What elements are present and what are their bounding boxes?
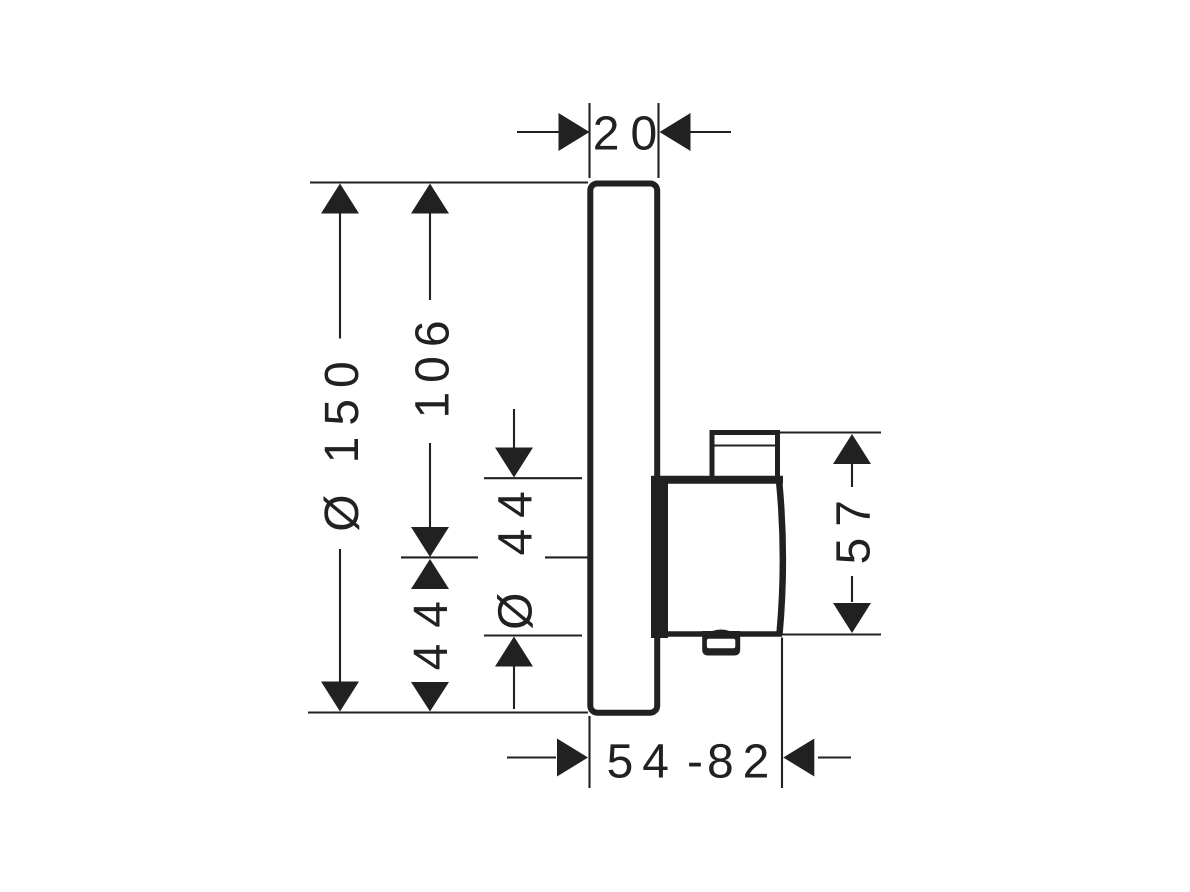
- svg-text:54-82: 54-82: [607, 736, 779, 789]
- svg-text:Ø150: Ø150: [316, 350, 369, 531]
- svg-text:Ø44: Ø44: [490, 480, 543, 630]
- svg-text:44: 44: [405, 585, 458, 670]
- svg-text:57: 57: [828, 489, 881, 564]
- svg-text:106: 106: [407, 311, 460, 418]
- svg-text:20: 20: [593, 108, 668, 161]
